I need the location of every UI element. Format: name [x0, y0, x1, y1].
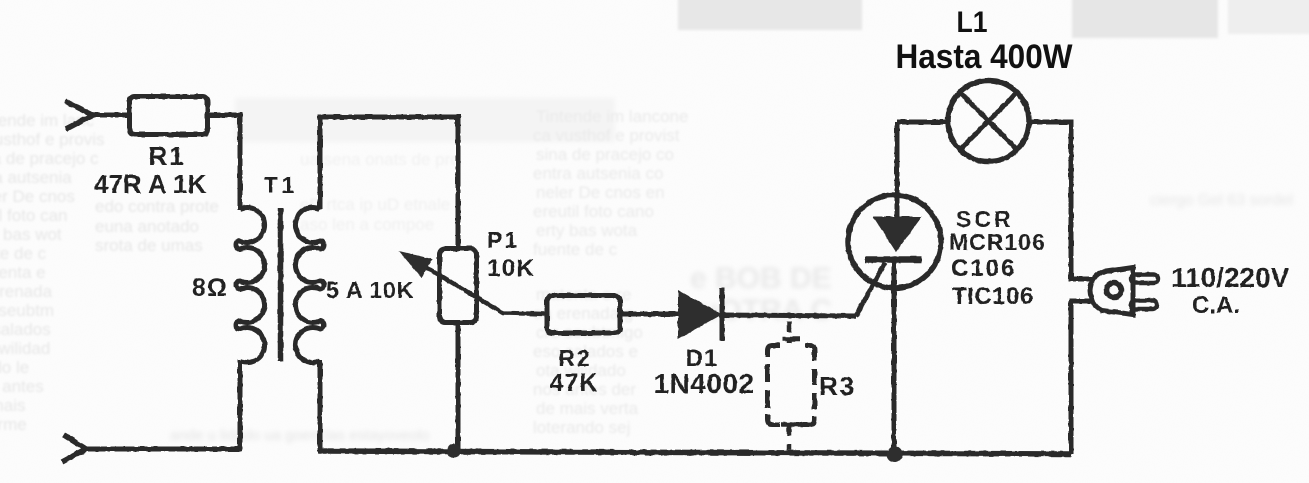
- svg-text:R1: R1: [148, 141, 185, 171]
- bottom rail: [318, 451, 1071, 454]
- resistor R1: [130, 97, 208, 135]
- svg-text:euna anotado: euna anotado: [95, 217, 199, 236]
- svg-text:MCR106: MCR106: [949, 229, 1046, 255]
- svg-text:47K: 47K: [550, 369, 599, 397]
- svg-text:e BOB DE: e BOB DE: [690, 262, 832, 295]
- resistor R3 (dashed body): [768, 346, 781, 358]
- input terminal top-left chevron: [65, 101, 93, 129]
- wire T1 primary bottom to rail: [86, 360, 240, 449]
- svg-text:averme: averme: [0, 415, 27, 434]
- svg-text:C106: C106: [951, 255, 1016, 282]
- wire input to R1: [90, 113, 127, 118]
- transformer T1 primary winding: [236, 208, 265, 363]
- diode D1: [678, 290, 722, 339]
- svg-text:eso salados: eso salados: [0, 320, 51, 339]
- node junction SCR/rail: [887, 446, 903, 462]
- background bleed-through text (decorative): [0, 111, 219, 434]
- schematic ink: [62, 81, 1158, 463]
- SCR cathode lead to rail: [892, 262, 897, 453]
- svg-text:fuente de c: fuente de c: [533, 240, 618, 259]
- svg-text:de mais: de mais: [0, 396, 26, 415]
- potentiometer P1 wiper arrow: [424, 266, 545, 314]
- svg-text:ereutil foto can: ereutil foto can: [0, 206, 68, 225]
- svg-text:ciergo Gel 63 sordel: ciergo Gel 63 sordel: [1150, 192, 1293, 209]
- transformer T1 secondary winding: [295, 208, 324, 363]
- svg-text:ca vusthof e provist: ca vusthof e provist: [533, 126, 680, 145]
- wire D1 to gate junction: [722, 315, 856, 316]
- svg-text:sina de pracejo c: sina de pracejo c: [0, 149, 99, 168]
- transformer T1 core: [278, 208, 284, 361]
- resistor R2: [547, 296, 620, 334]
- plug prongs: [1131, 275, 1158, 284]
- SCR anode triangle: [873, 217, 922, 253]
- wire plug stubs: [1069, 279, 1094, 301]
- svg-text:de mais verta: de mais verta: [536, 399, 639, 418]
- lamp L1: [948, 81, 1029, 162]
- svg-text:eD rtca ip uD etnale: eD rtca ip uD etnale: [300, 195, 450, 214]
- wire plug to rail (right side): [1069, 301, 1074, 454]
- svg-text:8Ω: 8Ω: [192, 274, 228, 302]
- svg-text:entra autsenia: entra autsenia: [0, 168, 72, 187]
- svg-text:srota de umas: srota de umas: [95, 236, 203, 255]
- wire R1 to T1 primary top: [210, 115, 240, 210]
- svg-text:ua sena onats de pro: ua sena onats de pro: [300, 150, 460, 169]
- plug P (mains) body: [1090, 268, 1133, 315]
- svg-text:R3: R3: [819, 371, 856, 401]
- svg-text:fuente de c: fuente de c: [0, 244, 47, 263]
- svg-text:matenta e: matenta e: [0, 263, 46, 282]
- svg-text:erty bas wota: erty bas wota: [536, 221, 638, 240]
- svg-text:ea erenada: ea erenada: [0, 282, 53, 301]
- wire R2 to D1: [621, 312, 680, 317]
- node junction P1/rail: [447, 444, 461, 458]
- svg-text:ande u lidado ua goenclas esta: ande u lidado ua goenclas estayoveolo: [170, 427, 429, 444]
- SCR U1 body: [848, 195, 941, 288]
- svg-text:P1: P1: [487, 227, 519, 253]
- svg-text:entra autsenia co: entra autsenia co: [533, 164, 663, 183]
- wire SCR top to lamp: [897, 120, 950, 125]
- svg-text:edo contra prote: edo contra prote: [95, 197, 219, 216]
- svg-text:erty bas wot: erty bas wot: [0, 225, 62, 244]
- svg-text:cre seubtm: cre seubtm: [0, 301, 54, 320]
- wire P1 bottom to rail: [456, 325, 461, 451]
- SCR cathode bar: [865, 256, 922, 263]
- svg-text:lorado le: lorado le: [0, 358, 29, 377]
- input terminal bottom-left chevron: [62, 435, 86, 462]
- svg-text:1N4002: 1N4002: [653, 368, 754, 399]
- svg-text:ca alusthof e provis: ca alusthof e provis: [0, 130, 104, 149]
- svg-text:T1: T1: [264, 172, 299, 198]
- svg-text:loterando sej: loterando sej: [533, 418, 630, 437]
- svg-text:Hasta 400W: Hasta 400W: [896, 38, 1073, 76]
- svg-text:neler De cnos en: neler De cnos en: [536, 183, 665, 202]
- svg-text:C.A.: C.A.: [1192, 292, 1240, 319]
- resistor R3 dashed drop (top): [787, 321, 792, 343]
- svg-text:ereutil foto cano: ereutil foto cano: [533, 202, 654, 221]
- svg-text:47R A 1K: 47R A 1K: [94, 169, 206, 199]
- svg-text:Tintende im lancone: Tintende im lancone: [536, 107, 688, 126]
- background bleed-through patches (decorative): [235, 0, 1309, 142]
- svg-text:sina de pracejo co: sina de pracejo co: [536, 145, 674, 164]
- SCR anode lead: [895, 122, 900, 217]
- wire lamp to right side down: [1027, 122, 1071, 279]
- svg-text:aso len a compoe: aso len a compoe: [300, 215, 434, 234]
- wire T1 secondary top to P1 top: [320, 117, 458, 246]
- svg-text:TIC106: TIC106: [952, 283, 1034, 310]
- svg-text:ota wilidad: ota wilidad: [0, 339, 50, 358]
- svg-text:5 A 10K: 5 A 10K: [326, 277, 414, 303]
- svg-text:L1: L1: [957, 6, 988, 39]
- svg-text:R2: R2: [558, 345, 591, 371]
- svg-text:10K: 10K: [487, 255, 535, 282]
- wire T1 secondary bottom to rail: [318, 360, 323, 451]
- svg-text:nos antes: nos antes: [0, 377, 44, 396]
- potentiometer P1 body: [440, 249, 477, 323]
- svg-text:neler De cnos: neler De cnos: [0, 187, 75, 206]
- svg-text:110/220V: 110/220V: [1171, 262, 1290, 293]
- SCR gate lead: [856, 263, 885, 316]
- resistor R3 dashed drop (bottom): [787, 426, 792, 450]
